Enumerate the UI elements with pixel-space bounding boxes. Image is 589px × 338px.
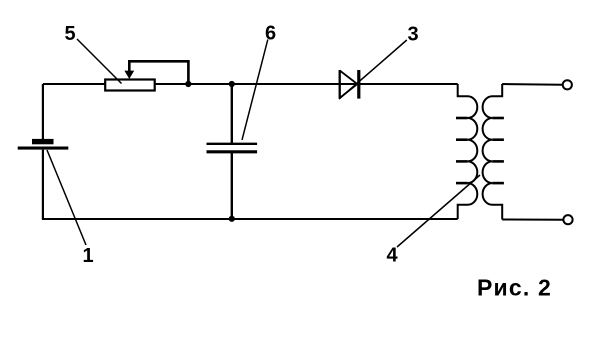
wire left vertical lower (battery bottom lead) — [42, 150, 44, 219]
wire bottom horizontal — [42, 218, 458, 220]
wire left vertical upper (battery top lead) — [42, 84, 44, 140]
diode VD cathode bar — [357, 70, 360, 99]
capacitor C bottom lead — [231, 152, 233, 219]
leader line for label 5 — [77, 39, 122, 84]
diode VD triangle outline — [340, 71, 358, 99]
svg-text:3: 3 — [407, 24, 418, 46]
capacitor C top plate — [207, 143, 258, 145]
svg-text:1: 1 — [82, 245, 93, 267]
svg-text:Рис. 2: Рис. 2 — [477, 275, 552, 301]
battery GB1 long thin plate — [18, 147, 69, 150]
wire secondary bottom to output terminal — [502, 219, 563, 221]
capacitor C (element 6) top lead — [231, 84, 233, 143]
output terminal top — [563, 80, 572, 89]
svg-text:6: 6 — [265, 23, 276, 45]
output terminal bottom — [563, 215, 572, 224]
wire top horizontal — [43, 83, 458, 85]
svg-text:5: 5 — [64, 23, 75, 45]
node junction dot (wiper tap to top wire) — [185, 81, 191, 87]
wire secondary top to output terminal — [502, 83, 562, 86]
node junction dot (capacitor bottom) — [229, 216, 235, 222]
rheostat wiper arrowhead — [124, 71, 134, 79]
node junction dot (capacitor top) — [229, 81, 235, 87]
transformer secondary turn dashes — [492, 118, 504, 183]
transformer T secondary winding — [483, 84, 503, 220]
leader line for label 4 — [397, 175, 480, 247]
rheostat R (element 5) body — [105, 80, 155, 91]
rheostat wiper loop wire — [129, 61, 188, 84]
leader line for label 6 — [242, 40, 268, 141]
transformer primary turn dashes — [456, 118, 468, 183]
leader line for label 3 — [339, 40, 407, 99]
battery GB1 short thick plate — [32, 139, 54, 144]
svg-text:4: 4 — [386, 245, 398, 267]
transformer T (element 4) primary winding — [458, 84, 478, 219]
diode VD (element 3) anode bar / triangle base — [339, 70, 341, 99]
capacitor C bottom plate — [207, 150, 258, 153]
leader line for label 1 — [47, 150, 86, 245]
